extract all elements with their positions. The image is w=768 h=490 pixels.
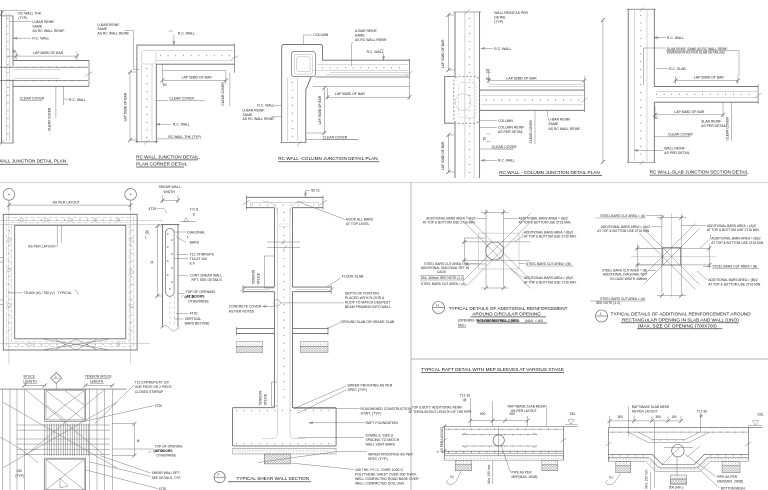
pad left: [616, 462, 631, 466]
svg-text:ROOF TO MATCH DEEPEST: ROOF TO MATCH DEEPEST: [345, 301, 391, 305]
svg-text:RC WALL - COLUMN JUNCTION DETA: RC WALL - COLUMN JUNCTION DETAIL PLAN: [499, 170, 600, 175]
detail bubble H: [433, 302, 445, 314]
vertical lap dim: [307, 88, 325, 133]
svg-text:R.C. WALL: R.C. WALL: [178, 31, 195, 35]
short bar near pipe: [664, 447, 693, 449]
break tick bottom: [144, 140, 150, 145]
svg-text:-: -: [601, 318, 602, 322]
opening 2 diagonals: [46, 460, 84, 490]
svg-text:CONCRETE COVER: CONCRETE COVER: [229, 305, 262, 309]
opening square: [663, 248, 681, 265]
dim tension splice: [86, 385, 113, 387]
svg-text:100 THK. P.C.C. OVER 1000 G: 100 THK. P.C.C. OVER 1000 G: [355, 468, 403, 472]
svg-text:WALL VERT BARS: WALL VERT BARS: [366, 442, 396, 446]
svg-text:STEEL BARS CUT AREA = (B): STEEL BARS CUT AREA = (B): [526, 262, 571, 266]
svg-text:500: 500: [618, 415, 624, 419]
top dim line: [0, 9, 26, 11]
svg-text:SPEC (TYP.): SPEC (TYP.): [348, 388, 368, 392]
svg-text:U-BAR REINF.: U-BAR REINF.: [548, 118, 571, 122]
svg-text:AS PER DETAIL: AS PER DETAIL: [498, 130, 523, 134]
leader R.C. SLAB: [656, 68, 668, 70]
rebar ticks vertical: [146, 68, 148, 139]
rebar vertical pair: [142, 64, 153, 140]
break tick end: [406, 71, 412, 76]
lap bar second lines: [14, 69, 60, 78]
diamond callout 1: [51, 373, 62, 384]
svg-text:LAP 50ØD OF BAR: LAP 50ØD OF BAR: [674, 110, 705, 114]
leader DIAGONAL BARS: [174, 232, 186, 243]
svg-text:(MAX. SIZE OF OPENING (700X700: (MAX. SIZE OF OPENING (700X700): [638, 323, 717, 328]
pipe sleeve: [493, 435, 504, 446]
svg-text:AS-PER LAYOUT: AS-PER LAYOUT: [632, 409, 658, 413]
pit hatched block: [264, 454, 290, 464]
additional bars top: [462, 433, 537, 435]
leader R.C. WALL: [481, 47, 493, 49]
soffit mesh ticks: [612, 455, 650, 457]
svg-text:COLUMN: COLUMN: [498, 119, 513, 123]
svg-text:SAME: SAME: [32, 25, 42, 29]
leader R.C. WALL: [654, 37, 666, 39]
svg-text:MEP(MAX. 200Ø): MEP(MAX. 200Ø): [512, 475, 538, 479]
svg-text:R.C. WALL: R.C. WALL: [173, 123, 190, 127]
pad center: [671, 475, 687, 479]
min 150 dim: [492, 460, 494, 484]
svg-text:AT TOP & BOTTOM USE 2T16 MIN.: AT TOP & BOTTOM USE 2T16 MIN.: [519, 221, 572, 225]
svg-text:SEE): SEE): [458, 323, 466, 327]
slab faces: [654, 86, 758, 102]
svg-text:T12-16: T12-16: [460, 394, 470, 398]
svg-text:CLEAR COVER: CLEAR COVER: [169, 97, 194, 101]
leader R.C. WALL top: [169, 31, 175, 45]
svg-text:SEE DETAILS, TYP.: SEE DETAILS, TYP.: [152, 476, 181, 480]
svg-text:SPEC (TYP.): SPEC (TYP.): [368, 457, 388, 461]
wall top cap: [454, 11, 482, 13]
bottom break: [160, 325, 180, 332]
ground slab end caps: [237, 327, 329, 335]
slab rebar: [656, 91, 757, 97]
svg-text:CLEAR COVER: CLEAR COVER: [492, 145, 517, 149]
svg-text:LAP 50ØD OF BAR: LAP 50ØD OF BAR: [694, 75, 725, 79]
svg-text:AS RC WALL REINF.: AS RC WALL REINF.: [355, 38, 387, 42]
svg-text:R.C. WALL: R.C. WALL: [498, 159, 515, 163]
wall faces: [628, 9, 654, 162]
raft ticks: [236, 410, 334, 412]
cage bars dots: [167, 233, 173, 290]
opening 2 rect: [45, 458, 86, 490]
horizontal strip lines: [463, 242, 531, 260]
lap dim line: [7, 52, 78, 61]
floor break ticks: [240, 287, 335, 292]
slab soffit lines: [444, 450, 563, 452]
svg-text:AT TOP & BOTTOM USE 2T16 MIN.: AT TOP & BOTTOM USE 2T16 MIN.: [707, 228, 760, 232]
wall rebar: [278, 208, 291, 430]
lap dim lower: [655, 102, 723, 117]
svg-text:TENSION: TENSION: [259, 390, 263, 405]
horizontal wall end cap: [88, 60, 90, 86]
top dim tick: [0, 11, 4, 17]
diagonal bars pair 1: [463, 216, 534, 289]
svg-text:T8-600 (H) / 750 (V) . TYPICAL: T8-600 (H) / 750 (V) . TYPICAL: [24, 291, 72, 295]
svg-text:-: -: [219, 479, 220, 483]
svg-text:AS RC WALL REINF.: AS RC WALL REINF.: [97, 32, 129, 36]
blinding dotted band: [444, 456, 563, 461]
column tie rounded square: [294, 54, 312, 74]
rebar verticals: [288, 78, 298, 142]
dotted band polygon: [609, 458, 749, 472]
leader 4T20: [176, 313, 188, 315]
svg-text:SPACING TO MATCH: SPACING TO MATCH: [366, 438, 400, 442]
leader RC WALL: [14, 37, 32, 39]
top mesh line: [444, 428, 563, 430]
svg-text:RC WALL THK (TYP): RC WALL THK (TYP): [168, 135, 201, 139]
lap dim line: [163, 65, 226, 85]
svg-text:SSL: SSL: [758, 412, 764, 416]
svg-text:RAFT FOUNDATION: RAFT FOUNDATION: [366, 421, 399, 425]
svg-text:WELL COMPACTED ROAD BASE OVER: WELL COMPACTED ROAD BASE OVER: [355, 477, 419, 481]
svg-text:SHEAR WALL RFT.: SHEAR WALL RFT.: [152, 471, 181, 475]
subbase strips right: [300, 341, 328, 346]
slab left cap: [443, 427, 445, 461]
wall inner rect: [15, 225, 126, 338]
svg-text:T12-30: T12-30: [697, 410, 707, 414]
svg-text:Min. 150 mm: Min. 150 mm: [487, 464, 491, 483]
svg-text:50 CL: 50 CL: [311, 189, 320, 193]
rebar verticals: [465, 12, 474, 178]
subbase strips left: [237, 341, 263, 346]
svg-text:TYPICAL RAFT DETAIL WITH MEP S: TYPICAL RAFT DETAIL WITH MEP SLEEVES AT …: [421, 367, 564, 372]
pad right: [722, 462, 740, 466]
diagonal bars pair 1: [640, 229, 700, 290]
svg-text:SLAB REINF.: SLAB REINF.: [701, 120, 722, 124]
svg-text:AT TOP & BOTTOM USE 2T16 MIN.: AT TOP & BOTTOM USE 2T16 MIN.: [711, 241, 764, 245]
svg-text:TENSION SPLICE: TENSION SPLICE: [85, 375, 113, 379]
pipe sleeve: [672, 445, 684, 457]
floor slab faces: [243, 287, 331, 292]
svg-text:TYPICAL DETAILS OF ADDITIONAL: TYPICAL DETAILS OF ADDITIONAL REINFORCEM…: [611, 312, 752, 317]
bottom dim: [657, 295, 686, 297]
wall left face with column jog: [445, 12, 455, 178]
svg-text:CLOSED STIRRUP: CLOSED STIRRUP: [135, 390, 164, 394]
roof ticks: [252, 204, 320, 206]
left cap: [608, 427, 610, 461]
svg-text:DOWELS, SIZE &: DOWELS, SIZE &: [366, 433, 394, 437]
svg-text:CLEAR COVER: CLEAR COVER: [20, 97, 45, 101]
opening circle: [486, 242, 504, 260]
svg-text:BARS: BARS: [190, 241, 200, 245]
top dim: [481, 209, 509, 216]
svg-text:OTHERWISE: OTHERWISE: [188, 299, 209, 303]
svg-text:LAP 50ØD OF BAR: LAP 50ØD OF BAR: [124, 92, 128, 121]
left edge stubs: [0, 258, 3, 305]
vertical lap dim left: [130, 72, 137, 140]
rebar ticks right band: [131, 230, 133, 334]
X-brace bottom band: [43, 339, 109, 350]
column inner detail: [297, 57, 311, 72]
splice circles in band: [7, 218, 133, 346]
svg-text:POLYTHENE SHEET OVER 200 THICK: POLYTHENE SHEET OVER 200 THICK: [355, 473, 417, 477]
svg-text:AS PER DETAIL: AS PER DETAIL: [701, 124, 726, 128]
break tick right: [581, 98, 587, 103]
svg-text:BEAM FRAMING INTO WALL: BEAM FRAMING INTO WALL: [345, 305, 391, 309]
svg-text:R.C. WALL: R.C. WALL: [494, 47, 511, 51]
left dim: [157, 226, 162, 296]
svg-text:TOP & BOTT. ADDITIONAL REINF.: TOP & BOTT. ADDITIONAL REINF.: [412, 406, 463, 410]
svg-text:LAP 50ØD OF BAR: LAP 50ØD OF BAR: [441, 39, 445, 68]
leader T12-30: [700, 414, 702, 433]
rebar ticks horizontal: [10, 66, 86, 68]
break tick right: [231, 56, 238, 60]
rebar vertical left: [6, 13, 8, 141]
clear cover ext lines below wall: [56, 86, 64, 118]
wall outline: [161, 225, 180, 328]
lap dim ticks: [161, 78, 228, 82]
roof rebar with hooks: [251, 203, 319, 207]
svg-text:TENSION: TENSION: [252, 269, 256, 284]
svg-text:L: L: [145, 236, 147, 240]
roof slab faces: [246, 197, 323, 207]
svg-text:RC WALL JUNCTION DETAIL,: RC WALL JUNCTION DETAIL,: [136, 154, 200, 159]
svg-text:R.C. WALL: R.C. WALL: [69, 98, 86, 102]
svg-text:DIAGONAL: DIAGONAL: [187, 230, 205, 234]
left dim: [637, 244, 662, 269]
leader T12 STIRRUPS: [174, 255, 188, 259]
svg-text:25: 25: [145, 230, 149, 234]
svg-text:WALL REINF.: WALL REINF.: [664, 146, 685, 150]
leader HOOK ALL BARS: [297, 201, 345, 219]
rebar ticks top band: [18, 219, 122, 221]
leaders water proofing upper: [294, 386, 347, 414]
rebar horizontals: [481, 96, 583, 105]
lap dim line: [489, 71, 585, 83]
pad right: [542, 460, 558, 464]
pcc dotted band: [233, 448, 337, 454]
right cap: [747, 427, 749, 461]
svg-text:T.O.S.: T.O.S.: [190, 208, 200, 212]
leader verticals from dims: [470, 398, 492, 427]
svg-text:(TYP): (TYP): [494, 20, 503, 24]
leader R.C. WALL lower: [64, 98, 69, 99]
svg-text:RC WALL-SLAB JUNCTION SECTION: RC WALL-SLAB JUNCTION SECTION DETAIL: [650, 169, 749, 174]
hook curves into wall: [262, 201, 305, 214]
wall verticals left: [3, 389, 25, 490]
wall inner face below column: [306, 77, 311, 143]
svg-text:COLUMN: COLUMN: [313, 33, 328, 37]
left dim upper: [448, 15, 455, 70]
cage stadium: [166, 228, 175, 296]
hidden column dashed outer: [454, 77, 480, 124]
dim line: [470, 416, 527, 427]
svg-text:50: 50: [163, 83, 167, 87]
frame divider line: [0, 182, 768, 184]
leader R.C. WALL top right: [380, 50, 385, 60]
clear cover vertical ext: [731, 102, 733, 141]
pad left: [455, 460, 471, 464]
svg-text:CLEAR COVER: CLEAR COVER: [668, 133, 693, 137]
svg-text:ROUGHENED CONSTRUCTION: ROUGHENED CONSTRUCTION: [361, 407, 413, 411]
svg-text:(TYP): (TYP): [18, 16, 27, 20]
vertical strip lines: [486, 216, 504, 287]
floor rebar hooks: [247, 288, 328, 290]
svg-text:RFT. SEE DETAILS: RFT. SEE DETAILS: [192, 278, 223, 282]
top dim line: [9, 201, 131, 210]
svg-text:AS PER LAYOUT: AS PER LAYOUT: [53, 200, 81, 204]
svg-text:IN SLAB AND WALL (UNO: IN SLAB AND WALL (UNO: [477, 319, 520, 323]
dim line: [610, 416, 681, 427]
svg-text:SAME: SAME: [548, 122, 558, 126]
svg-text:CLEAR COVER: CLEAR COVER: [221, 82, 225, 106]
break tick bottom: [297, 141, 302, 146]
wall bottom cap: [281, 141, 307, 143]
wall top cap: [2, 15, 14, 17]
leaders stirrups: [95, 385, 134, 424]
raft sides: [233, 408, 337, 446]
rebar ticks horizontal: [160, 55, 232, 57]
svg-text:U-BAR REINF.: U-BAR REINF.: [97, 23, 120, 27]
opening 1 diagonals: [46, 391, 84, 420]
svg-text:HOOK ALL BARS: HOOK ALL BARS: [346, 218, 374, 222]
svg-text:T12 STIRRUPS: T12 STIRRUPS: [190, 252, 215, 256]
svg-text:SEE NOTE (1.2): SEE NOTE (1.2): [596, 301, 620, 305]
svg-text:LAP 50ØD OF BAR: LAP 50ØD OF BAR: [318, 95, 322, 124]
svg-text:M: M: [137, 439, 140, 443]
svg-text:R.C. WALL: R.C. WALL: [257, 104, 274, 108]
svg-text:STEEL BARS CUT AREA = (B): STEEL BARS CUT AREA = (B): [712, 265, 757, 269]
break tick bottom: [640, 161, 644, 166]
wall top cap: [627, 8, 656, 10]
svg-text:LAP 50ØD OF BAR: LAP 50ØD OF BAR: [507, 76, 538, 80]
svg-text:R.C. SLAB: R.C. SLAB: [669, 67, 686, 71]
grid line left: [8, 200, 10, 364]
left dim: [464, 238, 486, 264]
horizontal strip lines: [636, 248, 710, 265]
svg-text:CAGE: CAGE: [437, 270, 447, 274]
svg-text:WIDTH: WIDTH: [164, 190, 176, 194]
svg-text:1: 1: [55, 375, 57, 379]
dowel bends: [262, 430, 306, 439]
center dashed bar: [169, 296, 171, 326]
lap bars: [326, 73, 408, 75]
top mesh line: [609, 431, 749, 433]
wall verticals right: [89, 389, 112, 490]
svg-text:AS-PER LAYOUT: AS-PER LAYOUT: [511, 409, 537, 413]
wall vertical faces: [2, 10, 14, 143]
svg-text:50: 50: [654, 116, 658, 120]
svg-text:MEP(MAX. 200Ø): MEP(MAX. 200Ø): [717, 479, 743, 483]
additional bars bottom: [462, 446, 537, 448]
svg-text:2T20: 2T20: [155, 404, 163, 408]
lap zone line below wall: [313, 86, 409, 88]
svg-text:50: 50: [486, 69, 490, 73]
svg-text:TOP OF OPENING: TOP OF OPENING: [186, 290, 216, 294]
svg-text:CONT SHEAR WALL: CONT SHEAR WALL: [190, 273, 223, 277]
arc on wall: [274, 300, 280, 306]
svg-text:Min. 150 mm: Min. 150 mm: [645, 469, 649, 488]
pipe centerline: [498, 427, 500, 457]
leader COLUMN: [480, 120, 497, 122]
roof slab end caps: [246, 196, 323, 210]
slab top line: [444, 426, 577, 428]
opening 1 rect: [45, 389, 86, 421]
svg-text:IN CAGE WIDTH 400mm: IN CAGE WIDTH 400mm: [610, 277, 647, 281]
svg-text:50: 50: [486, 77, 490, 81]
svg-text:350: 350: [655, 415, 661, 419]
dim splice: [24, 385, 44, 387]
soffit mesh ticks: [448, 451, 562, 453]
svg-text:X1: X1: [609, 476, 613, 480]
long ext vertical: [653, 421, 655, 488]
cage square: [478, 233, 519, 269]
center lines: [631, 213, 716, 297]
leader from U-BAR label: [125, 31, 140, 70]
svg-text:SAME: SAME: [97, 27, 107, 31]
wall faces: [274, 208, 292, 408]
svg-text:PIPE AS PER: PIPE AS PER: [512, 470, 533, 474]
level mark: [180, 218, 196, 222]
wall bottom cap: [0, 142, 14, 144]
left reference line: [602, 20, 604, 162]
svg-text:AS RC WALL REINF.: AS RC WALL REINF.: [548, 127, 580, 131]
u-bar corner: [142, 51, 157, 65]
svg-text:CLEAR COVER: CLEAR COVER: [48, 107, 52, 131]
svg-text:SSL: SSL: [570, 412, 576, 416]
svg-text:AT THROUGHOUT LENGTH OF THE PI: AT THROUGHOUT LENGTH OF THE PIPE: [409, 410, 473, 414]
svg-text:AT TOP & BOTTOM USE 2T16 MIN.: AT TOP & BOTTOM USE 2T16 MIN.: [597, 229, 650, 233]
lap dim ticks: [14, 54, 79, 58]
svg-text:WATER PROOFING AS PER: WATER PROOFING AS PER: [368, 452, 413, 456]
svg-text:500: 500: [480, 412, 486, 416]
svg-text:4T20: 4T20: [190, 312, 198, 316]
grid line right: [130, 200, 132, 364]
slab end cap: [757, 85, 759, 104]
top line: [0, 388, 127, 390]
svg-text:JOINT, (TYP.): JOINT, (TYP.): [361, 411, 382, 415]
svg-text:PLAN CORNER DETAIL: PLAN CORNER DETAIL: [136, 161, 188, 166]
svg-text:LAP 50ØD OF BAR: LAP 50ØD OF BAR: [441, 141, 445, 170]
section lines to elevation: [0, 221, 163, 225]
svg-text:AT TOP & BOTTOM USE 2T16 MIN.: AT TOP & BOTTOM USE 2T16 MIN.: [524, 235, 577, 239]
leader u-bar label: [9, 20, 31, 22]
svg-text:4T29: 4T29: [149, 207, 157, 211]
outer corner faces: [137, 45, 235, 143]
svg-text:M: M: [151, 261, 154, 265]
raft bottom: [233, 445, 337, 447]
left dim lower: [448, 135, 455, 172]
break tick slab end: [755, 93, 761, 98]
svg-text:TYPICAL SHEAR WALL SECTION: TYPICAL SHEAR WALL SECTION: [237, 476, 310, 481]
svg-text:AS PER NOTES: AS PER NOTES: [229, 309, 255, 313]
svg-text:150: 150: [671, 415, 677, 419]
ground slab faces: [237, 329, 329, 334]
svg-text:T16 AT 100: T16 AT 100: [190, 257, 208, 261]
svg-text:AS PER LAYOUT: AS PER LAYOUT: [28, 245, 56, 249]
svg-text:STEEL BARS CUT AREA = (A): STEEL BARS CUT AREA = (A): [421, 282, 466, 286]
horizontal wall faces: [13, 60, 89, 86]
wall end cap right: [583, 83, 585, 113]
svg-text:LENGTH: LENGTH: [90, 379, 104, 383]
SSL level mark: [565, 420, 578, 424]
roof break ticks: [243, 200, 328, 205]
slab top line: [609, 426, 763, 428]
svg-text:@ 1.50: @ 1.50: [184, 295, 195, 299]
svg-text:AS RC WALL REINF.: AS RC WALL REINF.: [243, 117, 275, 121]
break ticks: [441, 438, 566, 442]
M dim: [112, 424, 134, 456]
svg-text:WELL COMPACTED SOIL UNO: WELL COMPACTED SOIL UNO: [355, 482, 404, 486]
svg-text:50: 50: [13, 50, 17, 54]
svg-text:LENGTH: LENGTH: [23, 379, 37, 383]
grid bubble right: [125, 189, 137, 201]
svg-text:AROUND CIRCULAR OPENING: AROUND CIRCULAR OPENING: [472, 312, 541, 317]
